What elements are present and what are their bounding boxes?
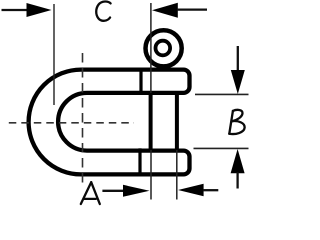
pin hidden edge through ring and top bar [150,3,152,93]
dimension B arrow top [237,46,239,71]
bow ear seam top [139,68,142,95]
vertical centerline [82,53,84,185]
pin shaft right edge [175,92,179,152]
horizontal centerline [9,122,134,124]
dimension B extension line bottom [194,147,249,149]
dimension B label [229,110,244,134]
dimension C extension line left [53,4,55,105]
pin ring head [146,30,182,66]
pin shaft left edge [149,92,153,152]
bow ear seam bottom [138,148,141,176]
dimension C label [96,1,110,20]
pin hidden edge left through bottom bar [150,150,152,200]
pin hidden edge right through bottom bar [176,150,178,200]
dimension B extension line top [195,93,249,95]
dimension C arrow right [152,3,178,18]
dimension C arrow left [2,9,29,11]
shackle bow body [29,70,190,175]
dimension A label [81,182,100,204]
dimension B arrow bottom [231,149,245,173]
dimension A arrow left [102,190,124,192]
dimension A arrow right [178,184,204,197]
